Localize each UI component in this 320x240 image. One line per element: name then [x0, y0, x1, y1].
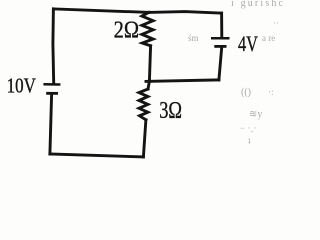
svg-text:··: ··	[273, 18, 279, 28]
wire 2ohm bottom to junction	[149, 46, 150, 82]
wire 2ohm top to top-right corner	[149, 12, 222, 14]
wire left side top (10V to top-left corner)	[51, 9, 55, 83]
paper background	[0, 0, 285, 164]
wire right side down to 4V battery	[220, 13, 223, 37]
wire right-loop bottom	[146, 80, 219, 82]
resistor 2ohm zigzag	[142, 12, 153, 45]
svg-text:((): (()	[241, 87, 251, 98]
resistor 3ohm zigzag	[139, 89, 148, 120]
svg-text:a re: a re	[262, 33, 275, 43]
svg-text:4V: 4V	[238, 31, 258, 56]
wire main bottom	[50, 154, 143, 157]
wire top-left to 2ohm top	[53, 9, 148, 13]
svg-text:2Ω: 2Ω	[114, 17, 140, 44]
svg-text:− ·ˍ·: − ·ˍ·	[240, 123, 256, 133]
svg-text:≋y: ≋y	[249, 109, 262, 120]
ghost print-through marks (decorative)	[188, 0, 284, 146]
wire 4V battery to bottom-right corner of right loop	[219, 48, 222, 80]
svg-text:3Ω: 3Ω	[159, 97, 182, 124]
wire left side bottom (10V to bottom-left corner)	[50, 95, 52, 154]
svg-text:10V: 10V	[7, 73, 36, 97]
wire middle branch lower (3ohm to bottom)	[143, 120, 146, 157]
svg-text:·:: ·:	[268, 87, 274, 97]
battery V1 10V plates	[43, 84, 60, 93]
battery V2 4V plates	[211, 38, 230, 46]
svg-text:śm: śm	[188, 33, 199, 43]
wire middle branch junction to 3ohm top	[148, 81, 149, 89]
